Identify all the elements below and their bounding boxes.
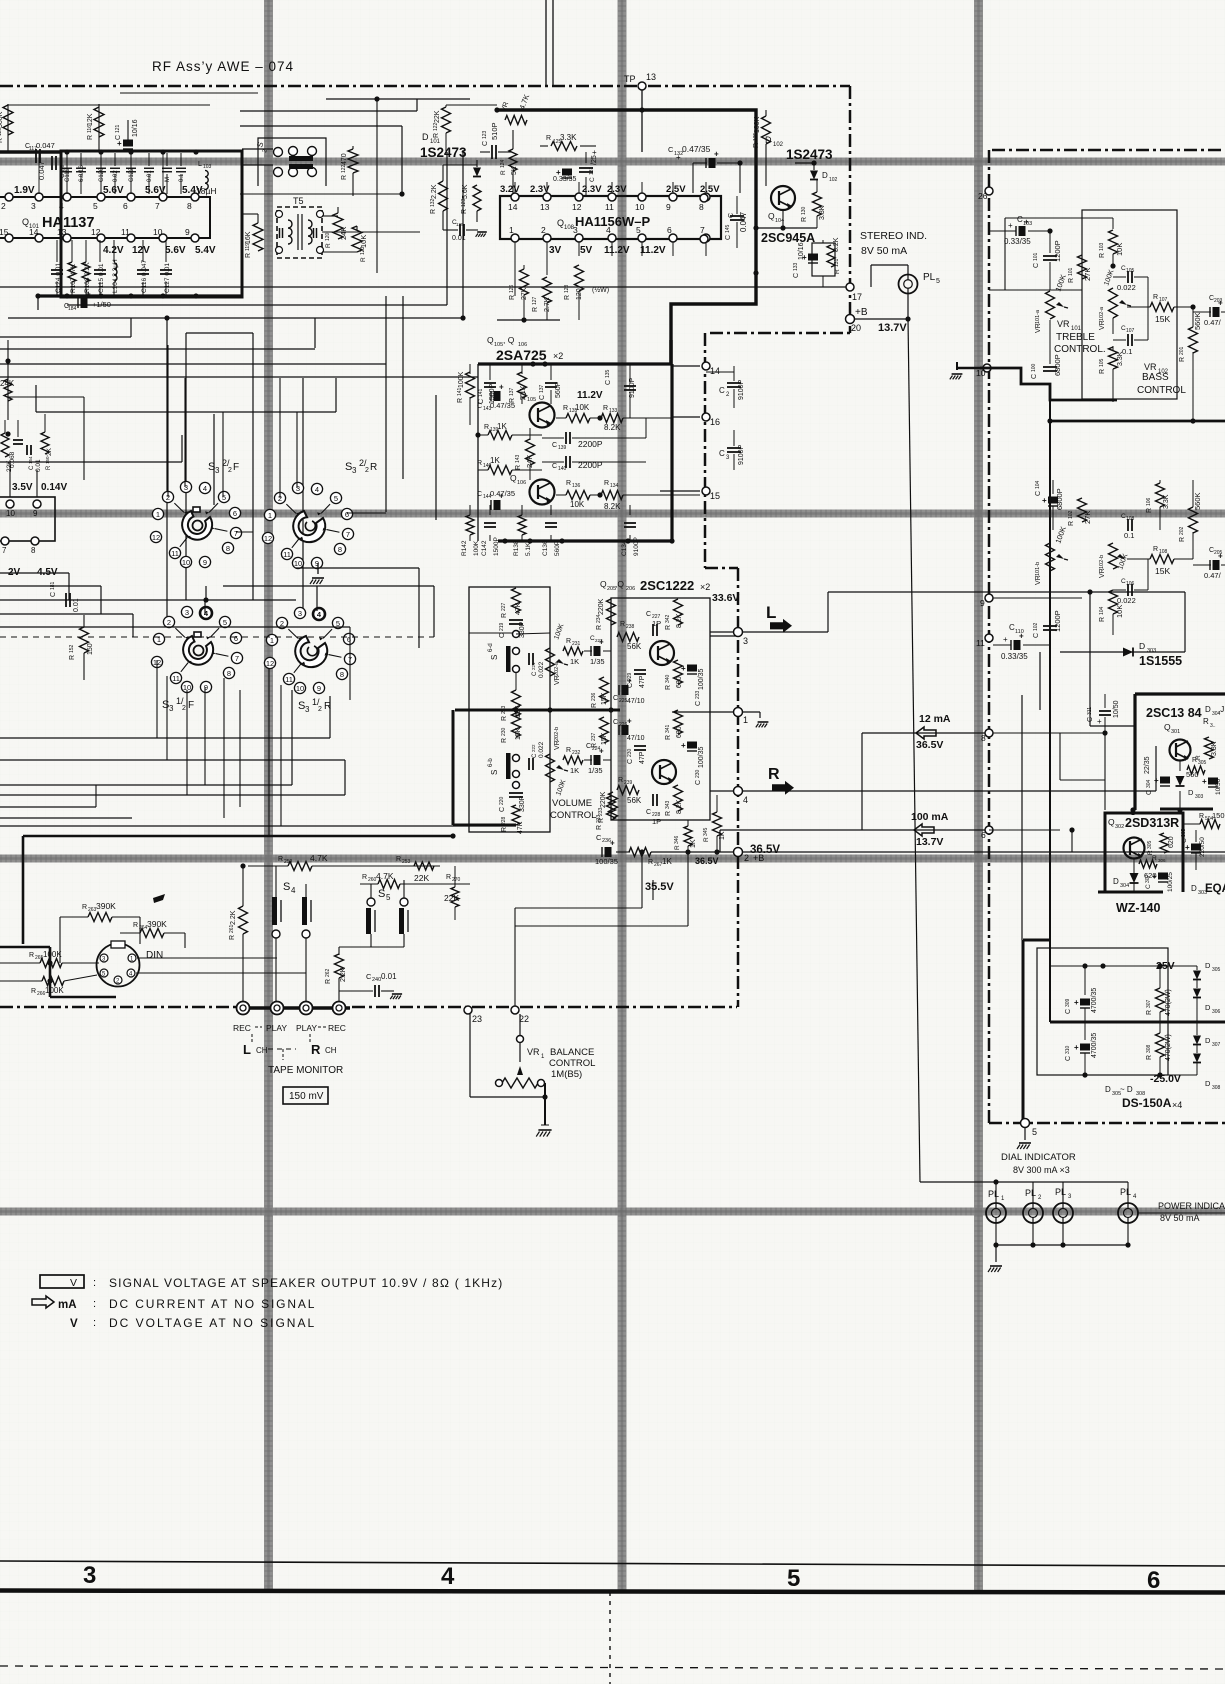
- svg-text:2.3V: 2.3V: [607, 184, 627, 195]
- svg-text:+: +: [1202, 777, 1207, 786]
- svg-text:+: +: [1042, 496, 1047, 505]
- svg-text:D: D: [1105, 1085, 1111, 1094]
- svg-text:+: +: [1074, 1043, 1079, 1052]
- svg-text:R: R: [665, 685, 672, 690]
- svg-text:D: D: [1205, 1036, 1211, 1045]
- svg-text:2.3V: 2.3V: [582, 184, 602, 195]
- svg-text:124: 124: [500, 159, 506, 168]
- svg-text:620: 620: [1168, 836, 1175, 848]
- svg-text:5: 5: [787, 1565, 800, 1592]
- svg-text:206: 206: [626, 586, 635, 592]
- svg-text:D: D: [1113, 877, 1119, 886]
- svg-text:C: C: [646, 809, 651, 816]
- svg-text:131: 131: [834, 258, 840, 267]
- svg-text:9: 9: [203, 558, 207, 567]
- svg-text:108: 108: [1126, 516, 1135, 522]
- svg-text:6-d: 6-d: [488, 643, 494, 652]
- svg-text:CONTROL.: CONTROL.: [1054, 344, 1106, 355]
- svg-text:2: 2: [744, 853, 749, 863]
- svg-text:R108 2.2K: R108 2.2K: [84, 262, 91, 293]
- svg-text:36.5V: 36.5V: [916, 739, 943, 751]
- svg-text:R: R: [325, 979, 332, 984]
- svg-text:0.1: 0.1: [1124, 531, 1134, 540]
- svg-text:0.022: 0.022: [538, 741, 545, 758]
- svg-text:5.6K: 5.6K: [462, 184, 469, 199]
- svg-text:231: 231: [572, 641, 581, 647]
- svg-text:R: R: [564, 295, 571, 300]
- svg-text:5.6V: 5.6V: [103, 185, 124, 196]
- svg-text:D: D: [1139, 641, 1145, 651]
- svg-text:233: 233: [596, 814, 602, 823]
- svg-text:R: R: [0, 465, 2, 470]
- svg-text:R: R: [1195, 755, 1202, 760]
- svg-text:1: 1: [156, 510, 160, 519]
- svg-text:104: 104: [1099, 606, 1105, 615]
- svg-text:S: S: [490, 770, 499, 775]
- svg-text:EQA: EQA: [1205, 883, 1225, 895]
- svg-text:10K: 10K: [570, 500, 585, 509]
- svg-text:D: D: [1205, 1079, 1211, 1088]
- svg-text:224: 224: [592, 746, 601, 752]
- svg-text:5.1K: 5.1K: [520, 385, 527, 400]
- svg-text:Q: Q: [1164, 722, 1171, 732]
- svg-text:9: 9: [980, 598, 985, 608]
- svg-text:1: 1: [743, 715, 748, 725]
- svg-text:4.7K: 4.7K: [376, 871, 394, 881]
- svg-text:3.3K: 3.3K: [1211, 741, 1218, 756]
- svg-text:10: 10: [976, 368, 986, 378]
- svg-text:+B: +B: [855, 307, 868, 318]
- svg-text:5.1K: 5.1K: [525, 542, 532, 556]
- svg-text:R: R: [500, 170, 507, 175]
- svg-text:22/35: 22/35: [1144, 756, 1151, 774]
- svg-text:139: 139: [558, 445, 567, 451]
- svg-text:L: L: [198, 161, 202, 168]
- svg-text:R: R: [1099, 253, 1106, 258]
- svg-text:S: S: [490, 655, 499, 660]
- svg-text:102: 102: [829, 177, 838, 183]
- svg-text:15K: 15K: [601, 692, 608, 705]
- svg-text:226: 226: [619, 722, 628, 728]
- svg-text:10: 10: [635, 202, 645, 212]
- svg-text:102-a: 102-a: [1099, 306, 1105, 321]
- svg-text:3: 3: [305, 705, 310, 714]
- svg-text:8.2K: 8.2K: [676, 613, 683, 628]
- svg-text:R: R: [501, 716, 508, 721]
- svg-text:D: D: [1205, 961, 1211, 970]
- svg-text:1/35: 1/35: [588, 766, 603, 775]
- svg-text:HA1137: HA1137: [42, 215, 94, 231]
- svg-text:5: 5: [1032, 1127, 1037, 1137]
- svg-text:R: R: [703, 837, 710, 842]
- svg-text:510P: 510P: [490, 122, 499, 140]
- svg-text:560K: 560K: [1193, 492, 1202, 510]
- svg-text:R: R: [396, 856, 401, 863]
- svg-text:9: 9: [185, 227, 190, 237]
- svg-text:17: 17: [852, 292, 862, 302]
- svg-text:+: +: [1097, 717, 1102, 726]
- svg-text:108: 108: [564, 225, 575, 231]
- svg-text:154: 154: [28, 456, 33, 464]
- svg-text:105: 105: [1126, 268, 1135, 274]
- svg-text:18µH: 18µH: [196, 186, 217, 196]
- svg-text:3: 3: [743, 636, 748, 646]
- svg-text:35.5V: 35.5V: [645, 881, 674, 893]
- svg-text:222: 222: [531, 744, 536, 752]
- svg-text:140: 140: [558, 466, 567, 472]
- svg-text:11: 11: [171, 549, 179, 558]
- svg-text:R: R: [133, 922, 138, 929]
- svg-text:307: 307: [1146, 999, 1152, 1008]
- svg-text:C122: C122: [129, 167, 135, 182]
- svg-text:10K: 10K: [575, 403, 590, 412]
- svg-text:3.3K: 3.3K: [560, 133, 577, 142]
- svg-text:CH: CH: [325, 1046, 337, 1055]
- svg-text:C142: C142: [481, 540, 488, 556]
- svg-text:137: 137: [509, 387, 515, 396]
- svg-text:C: C: [50, 592, 57, 597]
- svg-text:C: C: [719, 449, 725, 458]
- svg-text:2: 2: [1, 201, 6, 211]
- svg-text:9100P: 9100P: [738, 379, 745, 400]
- svg-text:3.5V: 3.5V: [12, 482, 33, 493]
- svg-text:C120: C120: [99, 167, 105, 182]
- svg-text:101-a: 101-a: [1035, 309, 1041, 324]
- svg-text:236: 236: [591, 692, 597, 701]
- svg-text:VOLUME: VOLUME: [552, 798, 592, 809]
- svg-text:R: R: [1153, 294, 1158, 301]
- svg-text:R: R: [1099, 617, 1106, 622]
- svg-text:10: 10: [294, 559, 302, 568]
- svg-text:101: 101: [1068, 267, 1074, 276]
- svg-text:4700/35: 4700/35: [1091, 1033, 1098, 1058]
- svg-text:133: 133: [609, 408, 618, 414]
- svg-text:6: 6: [123, 201, 128, 211]
- svg-text:R: R: [341, 175, 348, 180]
- svg-text:202-b: 202-b: [554, 727, 560, 741]
- svg-text:3: 3: [185, 608, 189, 617]
- svg-text:3.3K: 3.3K: [1163, 494, 1170, 509]
- svg-text:10/50: 10/50: [1215, 778, 1222, 795]
- svg-text:R: R: [604, 480, 609, 487]
- svg-text:311: 311: [1087, 707, 1093, 715]
- svg-text:C: C: [646, 611, 651, 618]
- svg-text:V: V: [70, 1318, 78, 1330]
- svg-text:R: R: [509, 398, 516, 403]
- svg-text:10/16: 10/16: [132, 119, 139, 137]
- svg-text:390K: 390K: [96, 901, 116, 911]
- svg-text:4: 4: [743, 795, 748, 805]
- svg-text:8: 8: [699, 202, 704, 212]
- svg-text:36.5V: 36.5V: [695, 856, 719, 866]
- svg-text:R: R: [665, 811, 672, 816]
- svg-text:F: F: [188, 700, 194, 711]
- svg-text:, Q: , Q: [503, 335, 515, 345]
- svg-text:307: 307: [1145, 874, 1151, 883]
- svg-text:390K: 390K: [147, 919, 167, 929]
- svg-text:105: 105: [1099, 358, 1105, 367]
- svg-text:CONTROL: CONTROL: [549, 1058, 595, 1069]
- svg-text:C: C: [1031, 374, 1038, 379]
- svg-text:R: R: [1146, 1010, 1153, 1015]
- svg-text:C: C: [1033, 263, 1040, 268]
- svg-text::: :: [93, 1298, 96, 1310]
- svg-text:100/35: 100/35: [698, 668, 705, 690]
- svg-text:0.047: 0.047: [37, 161, 46, 180]
- svg-text:107: 107: [1126, 328, 1135, 334]
- svg-text:R: R: [1152, 855, 1157, 862]
- svg-text:POWER INDICA: POWER INDICA: [1158, 1201, 1225, 1211]
- svg-text:0.01: 0.01: [452, 235, 466, 242]
- svg-text:0.01: 0.01: [381, 972, 397, 981]
- svg-text:308: 308: [1212, 1085, 1221, 1091]
- svg-text:HA1156W–P: HA1156W–P: [575, 214, 650, 229]
- svg-text:0.47/: 0.47/: [1204, 318, 1222, 327]
- svg-text:103: 103: [1099, 242, 1105, 251]
- svg-text:R: R: [430, 209, 437, 214]
- svg-text:3V: 3V: [549, 245, 562, 256]
- svg-text:8V 50 mA: 8V 50 mA: [1160, 1213, 1200, 1223]
- svg-text:150: 150: [87, 643, 94, 655]
- svg-text:+: +: [1024, 218, 1029, 227]
- svg-text:R: R: [566, 480, 571, 487]
- svg-text:253: 253: [402, 859, 411, 865]
- svg-text:233: 233: [695, 690, 701, 699]
- svg-text:~ D: ~ D: [1120, 1085, 1133, 1094]
- svg-text:309: 309: [1065, 998, 1071, 1007]
- svg-text:15K: 15K: [515, 727, 522, 740]
- svg-text:47/10: 47/10: [627, 735, 645, 742]
- svg-text:S: S: [378, 888, 385, 900]
- svg-text:0.47/35: 0.47/35: [682, 144, 711, 154]
- svg-text:11.2V: 11.2V: [640, 245, 666, 256]
- svg-text:DS-150A: DS-150A: [1122, 1096, 1172, 1110]
- svg-text:220/50: 220/50: [1199, 837, 1206, 857]
- svg-text:D: D: [1188, 788, 1194, 797]
- svg-text:1K: 1K: [570, 766, 579, 775]
- svg-text:8: 8: [981, 733, 986, 743]
- svg-text:CONTROL: CONTROL: [1137, 385, 1186, 396]
- svg-text:Q: Q: [768, 211, 775, 221]
- svg-text:1K: 1K: [690, 839, 697, 848]
- svg-text:11: 11: [976, 638, 985, 648]
- svg-text:129: 129: [456, 222, 464, 227]
- svg-text:8.2K: 8.2K: [833, 237, 840, 252]
- svg-text:47P: 47P: [639, 751, 646, 764]
- svg-text:CONTROL: CONTROL: [550, 810, 596, 821]
- svg-text:0.14V: 0.14V: [41, 482, 67, 493]
- svg-text:R: R: [618, 777, 623, 784]
- svg-text:+: +: [1003, 635, 1008, 644]
- svg-text:342: 342: [665, 614, 671, 623]
- svg-text:27K: 27K: [1083, 268, 1092, 281]
- svg-text:308: 308: [1146, 1044, 1152, 1053]
- svg-text:R: R: [801, 217, 808, 222]
- svg-text:Q: Q: [600, 579, 607, 589]
- svg-text:RF Ass’y AWE – 074: RF Ass’y AWE – 074: [152, 59, 294, 74]
- svg-text:26: 26: [978, 191, 988, 201]
- svg-text:C: C: [695, 701, 702, 706]
- svg-text:330P: 330P: [519, 621, 526, 638]
- svg-text:47K: 47K: [515, 602, 522, 615]
- svg-text:0.022: 0.022: [1117, 596, 1136, 605]
- svg-text:R: R: [546, 135, 551, 142]
- svg-text:DIAL INDICATOR: DIAL INDICATOR: [1001, 1152, 1076, 1163]
- svg-text:8: 8: [340, 670, 344, 679]
- svg-text:R: R: [768, 766, 780, 783]
- svg-text:7: 7: [2, 546, 7, 555]
- svg-text:106: 106: [517, 480, 526, 486]
- svg-text:0.02: 0.02: [113, 170, 119, 182]
- svg-text:3..: 3..: [1210, 723, 1216, 729]
- svg-text:8.2K: 8.2K: [604, 423, 621, 432]
- svg-text:R: R: [501, 827, 508, 832]
- svg-text:R: R: [1179, 537, 1186, 542]
- svg-text:11: 11: [605, 202, 614, 212]
- svg-text:230: 230: [695, 769, 701, 778]
- svg-text:341: 341: [665, 724, 671, 733]
- svg-text:2SC945A: 2SC945A: [761, 231, 815, 245]
- svg-text:232: 232: [572, 750, 581, 756]
- svg-text:0.47/: 0.47/: [1204, 571, 1222, 580]
- svg-text:4: 4: [291, 886, 296, 895]
- svg-text:+: +: [1218, 299, 1223, 308]
- svg-text:R: R: [501, 738, 508, 743]
- svg-text:6: 6: [345, 510, 349, 519]
- svg-text:1K: 1K: [497, 422, 507, 431]
- svg-text:106: 106: [1126, 581, 1135, 587]
- svg-text:R: R: [1146, 508, 1153, 513]
- svg-text:305: 305: [1147, 840, 1153, 849]
- svg-text:9: 9: [666, 202, 671, 212]
- svg-text:184: 184: [68, 306, 77, 312]
- svg-text:mA: mA: [58, 1299, 77, 1311]
- svg-text:R: R: [433, 133, 440, 138]
- svg-text:VR: VR: [1144, 362, 1157, 372]
- svg-text:L104 2.2µH: L104 2.2µH: [112, 259, 119, 293]
- svg-text:105: 105: [527, 397, 536, 403]
- svg-text:R: R: [0, 138, 4, 143]
- svg-text:Q: Q: [22, 217, 29, 227]
- svg-text:306: 306: [1212, 1009, 1221, 1015]
- svg-text:123: 123: [482, 130, 488, 139]
- svg-text:PL: PL: [1120, 1187, 1131, 1197]
- svg-text:+: +: [499, 383, 504, 392]
- svg-text:R: R: [46, 465, 52, 470]
- svg-text:11: 11: [121, 227, 130, 237]
- svg-text:1200P: 1200P: [1053, 240, 1062, 262]
- svg-text:R: R: [566, 747, 571, 754]
- svg-text:100K: 100K: [43, 950, 62, 959]
- svg-text:R: R: [596, 825, 603, 830]
- svg-text:227: 227: [501, 602, 507, 611]
- svg-text:+: +: [627, 677, 632, 686]
- svg-text:10K: 10K: [1115, 605, 1124, 618]
- svg-text:20: 20: [851, 323, 861, 333]
- svg-text:1: 1: [157, 635, 161, 644]
- svg-text:223: 223: [595, 638, 603, 643]
- svg-text:340: 340: [665, 674, 671, 683]
- svg-text:262: 262: [325, 968, 331, 977]
- svg-text:100/35: 100/35: [698, 746, 705, 768]
- svg-text:+: +: [610, 839, 615, 848]
- svg-text:3.2V: 3.2V: [500, 184, 520, 195]
- svg-text:8: 8: [338, 545, 342, 554]
- svg-text:1: 1: [270, 636, 274, 645]
- svg-text:121: 121: [115, 124, 121, 133]
- svg-text:5K: 5K: [511, 166, 518, 175]
- svg-text:C: C: [1065, 1009, 1072, 1014]
- svg-text:137: 137: [539, 384, 545, 393]
- svg-text:4.2V: 4.2V: [103, 245, 124, 256]
- svg-text:560P: 560P: [555, 381, 562, 398]
- svg-text:345: 345: [703, 827, 709, 836]
- svg-text:8.2K: 8.2K: [676, 799, 683, 814]
- svg-text:141: 141: [478, 388, 484, 397]
- svg-text:136: 136: [572, 483, 581, 489]
- svg-text:BASS: BASS: [1142, 372, 1169, 383]
- svg-text:1S2473: 1S2473: [420, 145, 467, 160]
- svg-text:C124 0.01: C124 0.01: [55, 263, 62, 293]
- svg-text:C116 0.047: C116 0.047: [141, 259, 148, 293]
- svg-text:C: C: [793, 273, 800, 278]
- svg-text:301: 301: [1171, 729, 1180, 735]
- svg-text:230: 230: [501, 727, 507, 736]
- svg-text:7: 7: [700, 225, 705, 235]
- svg-text:150: 150: [1212, 811, 1225, 820]
- svg-text:5.4V: 5.4V: [195, 245, 216, 256]
- svg-text:PLAY: PLAY: [266, 1023, 287, 1033]
- svg-text:R: R: [69, 655, 76, 660]
- svg-text:5.6V: 5.6V: [165, 245, 186, 256]
- svg-text:8: 8: [187, 201, 192, 211]
- svg-text:R: R: [532, 307, 539, 312]
- svg-text:202: 202: [1179, 526, 1185, 535]
- svg-text:24K: 24K: [339, 227, 348, 240]
- svg-text:1K: 1K: [490, 456, 500, 465]
- svg-text:0.33/35: 0.33/35: [1001, 652, 1028, 661]
- svg-text:R142: R142: [461, 540, 468, 556]
- svg-text:R: R: [87, 135, 94, 140]
- svg-text:R: R: [245, 253, 252, 258]
- svg-text:14: 14: [508, 202, 518, 212]
- svg-text:310: 310: [1065, 1045, 1071, 1054]
- svg-text:R: R: [457, 398, 464, 403]
- svg-text:100K: 100K: [458, 371, 465, 388]
- svg-text:R: R: [1146, 1055, 1153, 1060]
- svg-text:+: +: [86, 290, 91, 299]
- svg-text:+: +: [681, 741, 686, 750]
- svg-text:V: V: [70, 1277, 77, 1289]
- svg-text:L: L: [243, 1042, 251, 1057]
- svg-text:6-b: 6-b: [488, 758, 494, 767]
- svg-text:WZ-140: WZ-140: [1116, 901, 1161, 915]
- svg-text:F: F: [233, 462, 239, 473]
- svg-text:6: 6: [667, 225, 672, 235]
- svg-text:M: M: [165, 177, 171, 182]
- svg-text:C: C: [627, 759, 634, 764]
- svg-text:R: R: [477, 460, 482, 467]
- svg-text:346: 346: [674, 835, 680, 844]
- svg-text:TP: TP: [624, 74, 636, 84]
- svg-text:,Q: ,Q: [615, 579, 624, 589]
- svg-text:2: 2: [318, 706, 322, 713]
- svg-text:0.01: 0.01: [147, 170, 153, 182]
- svg-text:R: R: [362, 874, 367, 881]
- svg-text:2.2K: 2.2K: [340, 967, 347, 982]
- svg-text:+: +: [499, 492, 504, 501]
- svg-text:R: R: [563, 405, 568, 412]
